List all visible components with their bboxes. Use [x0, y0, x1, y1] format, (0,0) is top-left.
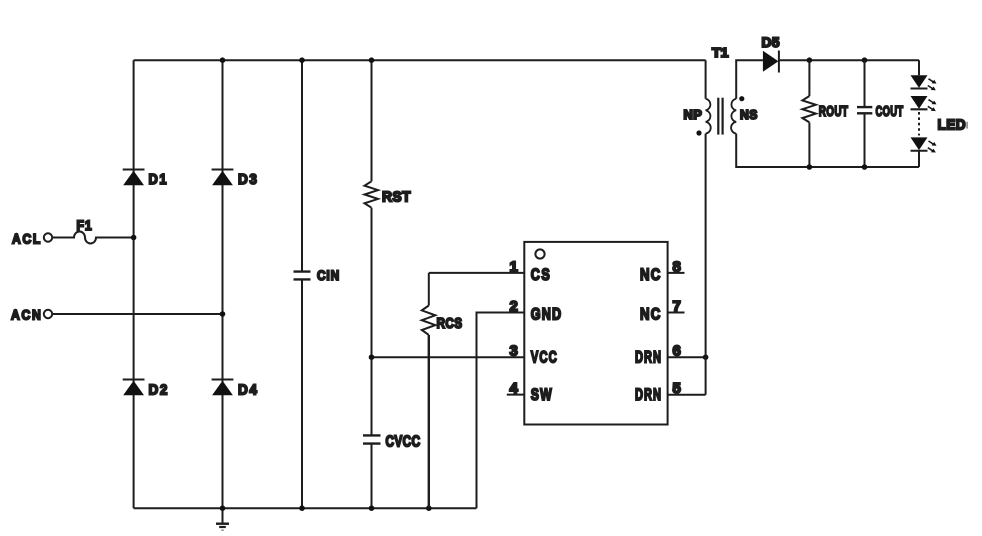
ground: [216, 508, 229, 530]
capacitor COUT: [857, 103, 904, 120]
node ACN: [11, 308, 52, 324]
fuse F1: [53, 217, 134, 244]
junction: top rail / CIN branch: [299, 57, 305, 63]
wire: secondary bottom rail: [736, 134, 919, 167]
svg-text:VCC: VCC: [531, 349, 558, 367]
wire: RCS branch top: [428, 273, 430, 306]
wire: top rail: [134, 59, 706, 61]
svg-text:NC: NC: [640, 266, 662, 284]
wire: transformer primary drop: [705, 60, 707, 98]
resistor ROUT: [802, 96, 848, 122]
svg-text:6: 6: [673, 343, 681, 360]
wire: dashed LED string continuation: [918, 112, 920, 136]
wire: pin 6 (DRN): [668, 356, 706, 358]
junction: bottom rail / ROUT: [807, 164, 813, 170]
svg-text:DRN: DRN: [635, 349, 662, 367]
svg-text:3: 3: [509, 343, 517, 360]
IC U1 body: [524, 242, 667, 425]
LED 3: [911, 137, 937, 152]
svg-text:1: 1: [509, 258, 517, 275]
capacitor CVCC: [363, 434, 421, 451]
wire: NS top to D5: [736, 60, 763, 98]
label LED partial cropped glyph: [966, 122, 968, 129]
diode D3: [212, 170, 259, 189]
wire: secondary top rail: [779, 59, 919, 61]
svg-text:D5: D5: [762, 34, 781, 50]
wire: pin 2 (GND) to bottom rail: [477, 313, 525, 509]
svg-text:RCS: RCS: [437, 315, 463, 332]
svg-text:4: 4: [509, 380, 518, 397]
svg-text:RST: RST: [382, 189, 411, 206]
wire: bridge left branch (D1/D2): [133, 60, 135, 508]
transformer T1 core: [718, 98, 722, 135]
svg-text:NC: NC: [640, 306, 662, 324]
wire: primary to DRN: [705, 134, 707, 395]
capacitor CIN: [294, 267, 341, 283]
junction: VCC wire / RST-CVCC branch: [369, 354, 375, 360]
svg-text:2: 2: [509, 298, 517, 315]
junction: top rail / ROUT: [807, 57, 813, 63]
svg-text:T1: T1: [712, 45, 729, 60]
svg-text:GND: GND: [531, 306, 563, 324]
wire: RST/CVCC branch: [371, 60, 373, 508]
svg-text:ACN: ACN: [11, 308, 43, 324]
node ACL: [12, 232, 52, 248]
svg-text:CS: CS: [531, 266, 552, 284]
diode D2: [123, 380, 169, 399]
wire: pin 3 (VCC): [372, 356, 525, 358]
svg-text:SW: SW: [531, 386, 553, 404]
wire: ROUT branch: [808, 60, 810, 167]
wire: COUT branch: [864, 60, 866, 167]
resistor RST: [365, 181, 412, 207]
svg-text:COUT: COUT: [876, 103, 904, 120]
IC U1 pin-1 indicator: [535, 249, 544, 258]
diode D1: [123, 170, 168, 189]
svg-text:7: 7: [673, 298, 681, 315]
svg-text:CVCC: CVCC: [386, 434, 421, 451]
wire: bridge right branch (D3/D4): [222, 60, 224, 508]
wire: pin 5 (DRN): [668, 394, 706, 396]
resistor RCS: [422, 306, 463, 335]
svg-text:NP: NP: [684, 107, 703, 122]
svg-text:D1: D1: [149, 171, 169, 188]
diode D5: [762, 34, 781, 73]
svg-text:DRN: DRN: [635, 386, 662, 404]
svg-text:ROUT: ROUT: [819, 103, 849, 120]
junction: bottom rail / COUT: [862, 164, 868, 170]
wire: pin 4 stub (SW): [507, 394, 525, 396]
junction: ACL / D1-D2 midpoint: [131, 235, 137, 241]
wire: LED branch bottom: [918, 151, 920, 167]
transformer T1 secondary winding NS: [731, 99, 758, 134]
wire: RCS branch bottom: [428, 335, 430, 508]
svg-text:8: 8: [673, 258, 681, 275]
wire: LED branch top: [918, 60, 920, 75]
junction: bottom rail / CVCC branch: [369, 505, 375, 511]
wire: CIN branch: [301, 60, 303, 508]
wire: bottom rail: [134, 507, 477, 509]
svg-text:D2: D2: [149, 382, 170, 399]
transformer T1 primary winding NP: [684, 99, 711, 134]
wire: pin 7 stub (NC): [668, 312, 685, 314]
junction: top rail / RST branch: [369, 57, 375, 63]
svg-text:CIN: CIN: [317, 267, 340, 283]
transformer polarity dot NP: [696, 130, 701, 135]
junction: top rail / COUT: [862, 57, 868, 63]
junction: bottom rail / RCS branch: [426, 505, 432, 511]
wire: pin 1 (CS): [429, 272, 525, 274]
junction: DRN pins / primary branch: [703, 354, 709, 360]
svg-text:NS: NS: [740, 107, 758, 122]
wire: pin 8 stub (NC): [668, 272, 685, 274]
junction: top rail / D3 branch: [220, 57, 226, 63]
diode D4: [212, 380, 259, 399]
svg-text:D4: D4: [238, 382, 259, 399]
junction: bottom rail / ground branch: [220, 505, 226, 511]
svg-text:ACL: ACL: [12, 232, 42, 248]
junction: bottom rail / CIN branch: [299, 505, 305, 511]
svg-text:5: 5: [673, 380, 681, 397]
LED 1: [911, 75, 937, 90]
LED 2: [911, 96, 937, 111]
svg-text:LED: LED: [938, 116, 967, 133]
svg-text:D3: D3: [238, 171, 259, 188]
wire: ACN to bridge: [53, 313, 223, 315]
transformer polarity dot NS: [739, 96, 744, 101]
junction: ACN / D3-D4 midpoint: [220, 311, 226, 317]
